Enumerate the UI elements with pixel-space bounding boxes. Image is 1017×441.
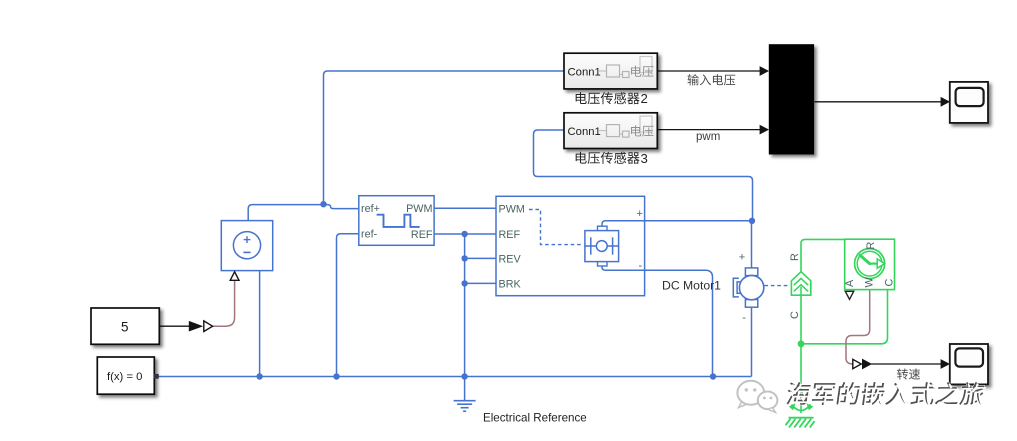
junction dot BRK [461,280,467,286]
svg-text:REF: REF [499,229,521,241]
wire rotational node down to mechanical reference [800,295,802,413]
svg-text:W: W [864,277,876,288]
H-bridge block [496,196,645,295]
svg-text:ref-: ref- [361,229,378,241]
label 输入电压 [688,74,736,85]
voltage sensor block 电压传感器2 [564,53,657,89]
voltage source control input port triangle [230,272,239,281]
svg-text:REV: REV [499,254,522,266]
PWM waveform icon [377,215,420,227]
svg-text:Electrical Reference: Electrical Reference [483,412,587,425]
ground rail wire [159,376,752,378]
wire node A to ref+ of PWM generator [324,205,360,209]
solver configuration block f(x)=0 [97,357,154,394]
label 转速 [897,369,920,380]
arrowhead at converter input [189,321,203,332]
signal line converter to scope2 [871,363,941,365]
wire motion sensor C to green net [801,290,888,344]
voltage sensor block 电压传感器3 [564,113,657,149]
svg-text:Conn1: Conn1 [568,126,601,138]
motion sensor A port triangle [845,291,853,299]
watermark text 海军的嵌入式之旅 [786,382,986,405]
svg-text:PWM: PWM [499,203,525,215]
wire PWM generator PWM out to H-bridge PWM in [434,207,496,209]
wire from voltage sensor3 Conn1 to node B [534,130,753,219]
svg-text:PWM: PWM [406,203,432,215]
signal line sensor2 to mux [658,70,761,72]
wire H-bridge + output to DC motor + [602,221,752,268]
svg-text:Conn1: Conn1 [568,66,601,78]
ideal rotational motion sensor block [845,239,895,289]
node A junction dot [320,201,326,207]
scope block 1 [950,82,988,123]
junction dot REV [461,255,467,261]
scope block 2 [950,344,988,384]
svg-text:C: C [884,279,896,287]
svg-text:+: + [739,251,745,263]
junction dot on REF wire [461,231,467,237]
wire BRK to vertical net [465,282,496,284]
svg-text:R: R [789,253,801,261]
wire voltage source minus to rail [259,271,261,377]
junction dot rail at ref- net [333,373,339,379]
mechanical rotational reference ground [792,405,811,411]
wire DC motor - to rail [751,307,753,377]
label 电压传感器2 [576,92,640,104]
svg-text:+: + [637,208,643,220]
junction dot rail at reference net [461,373,467,379]
PS-Simulink converter triangle [853,359,861,368]
signal line constant 5 to converter [160,325,191,327]
wire H-bridge - output down to rail [602,266,713,377]
signal line mux to scope1 [815,101,942,103]
svg-text:5: 5 [121,319,129,334]
svg-text:-: - [742,312,746,324]
electrical reference ground [464,377,466,401]
wire converter to voltage source control input [213,281,235,326]
dashed wire PWM port to H-bridge icon [529,210,584,245]
svg-text:pwm: pwm [696,131,720,143]
wire motion sensor W to converter [846,290,870,364]
wire ref- of PWM generator to ground rail [337,234,360,377]
signal line sensor3 to mux [658,129,761,131]
wire REV to vertical net [465,257,496,259]
DC motor symbol [745,268,757,276]
arrowhead into scope2 [941,359,950,369]
svg-text:DC Motor1: DC Motor1 [662,278,721,292]
wire PWM generator REF out to H-bridge REF in [434,233,496,235]
svg-text:2: 2 [641,91,648,106]
junction dot rail at H-bridge minus net [710,373,716,379]
wire voltage source + to node A [248,205,323,221]
node B junction dot on + wire [749,218,755,224]
svg-text:C: C [789,311,801,319]
arrowhead into mux input 2 [760,125,769,135]
Simulink-PS converter triangle [204,321,213,332]
wire rotational node to motion sensor R [801,239,870,272]
svg-text:A: A [844,279,856,287]
constant block 5 [91,308,159,344]
arrowhead at converter output [862,359,872,370]
svg-text:3: 3 [641,151,648,166]
wire from voltage sensor2 Conn1 to node A [324,71,565,204]
svg-text:f(x) = 0: f(x) = 0 [107,371,142,383]
rotational port element [791,272,810,296]
dashed wire DC motor shaft to rotational node [765,285,791,287]
vertical net REF-REV-BRK down to ground rail [464,234,466,377]
label 电压传感器3 [576,152,640,164]
svg-text:R: R [865,242,877,250]
arrowhead into scope1 [941,97,950,107]
controlled voltage source block [221,221,272,271]
junction dot green net [798,340,805,347]
svg-text:BRK: BRK [499,279,522,291]
svg-text:REF: REF [411,229,433,241]
mux block [769,44,814,154]
controlled PWM voltage block [359,196,434,246]
junction dot rail at source minus [256,373,262,379]
arrowhead into mux input 1 [760,66,769,76]
svg-text:ref+: ref+ [361,203,380,215]
H-bridge inner icon [598,226,608,231]
watermark logo [737,381,777,413]
